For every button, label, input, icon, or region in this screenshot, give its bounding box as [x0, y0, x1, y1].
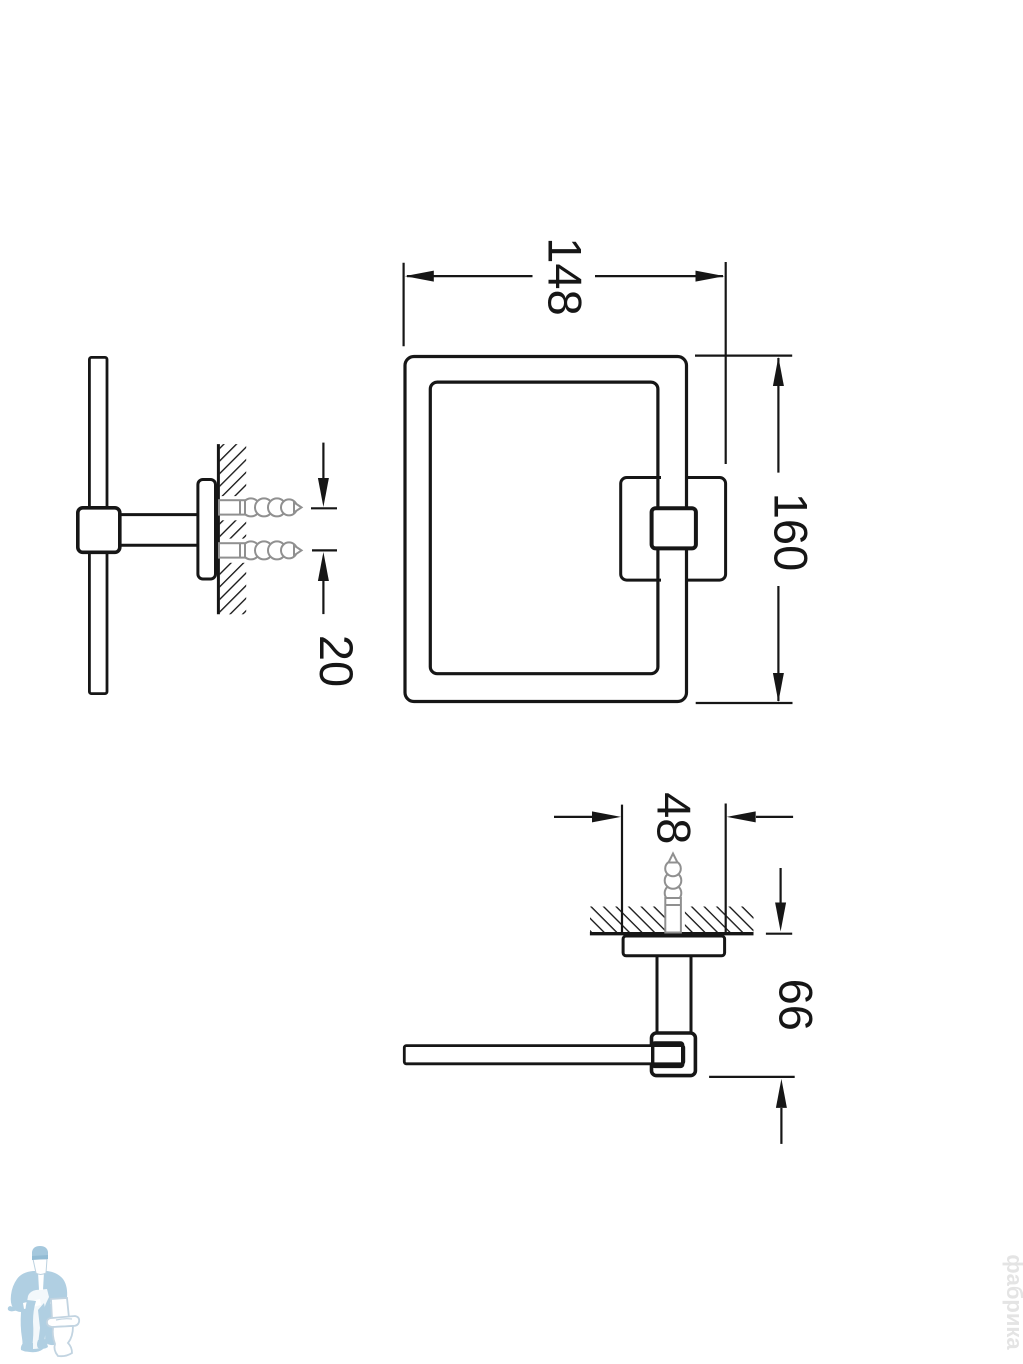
svg-text:148: 148 [539, 237, 592, 315]
svg-text:фабрика: фабрика [1002, 1254, 1023, 1350]
svg-text:160: 160 [764, 493, 817, 571]
svg-text:20: 20 [310, 635, 363, 687]
svg-text:48: 48 [648, 792, 701, 844]
svg-text:66: 66 [769, 979, 822, 1031]
